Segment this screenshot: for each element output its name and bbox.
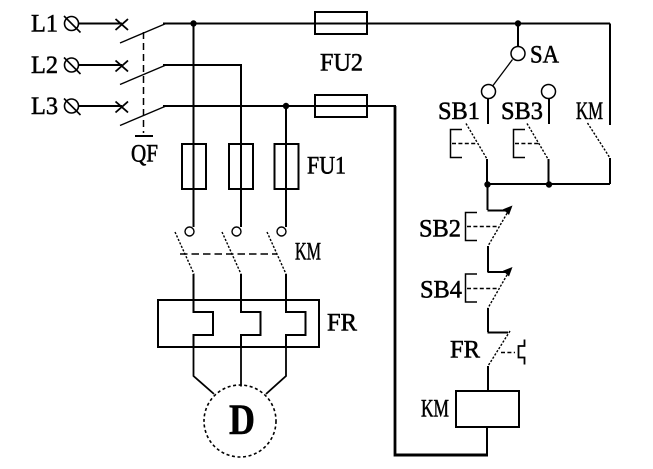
KM main contact fixed terminal (pole 1) bbox=[185, 227, 194, 236]
svg-text:SA: SA bbox=[530, 42, 559, 69]
QF fixed contact x (pole 3) bbox=[116, 102, 129, 113]
wire pole2 blade to FR bbox=[240, 274, 242, 300]
FR contact dashed link bbox=[501, 352, 515, 354]
svg-text:SB2: SB2 bbox=[419, 216, 461, 243]
fuse FU1 (phase 1) bbox=[182, 144, 206, 189]
selector SA right position circle bbox=[542, 85, 556, 99]
svg-text:SB3: SB3 bbox=[501, 98, 543, 125]
terminal L3 bbox=[64, 99, 81, 116]
KM main contact blade (pole 3) bbox=[267, 232, 286, 274]
motor D circle bbox=[204, 385, 276, 457]
wire FR to motor (phase 3) bbox=[266, 347, 286, 394]
FR heater element (phase 1) bbox=[194, 300, 214, 347]
svg-text:QF: QF bbox=[131, 141, 158, 168]
wire KM coil to bottom bbox=[486, 427, 488, 455]
svg-text:KM: KM bbox=[295, 239, 321, 266]
pushbutton SB4 arrow tip bbox=[503, 267, 513, 277]
KM auxiliary contact blade bbox=[588, 123, 611, 158]
wire SB2 to SB4 bbox=[487, 246, 489, 272]
pushbutton SB2 actuator dashed link bbox=[467, 226, 497, 228]
QF linkage dashed line bbox=[143, 32, 145, 133]
node junction L1/control bbox=[190, 20, 196, 26]
QF blade (pole 3) bbox=[120, 106, 166, 126]
wire FR contact to KM coil bbox=[487, 366, 489, 391]
FR heater element (phase 2) bbox=[241, 300, 261, 347]
QF blade (pole 1) bbox=[120, 24, 166, 44]
KM coil bbox=[456, 391, 519, 427]
svg-text:SB1: SB1 bbox=[438, 98, 480, 125]
KM main contact fixed terminal (pole 3) bbox=[277, 227, 286, 236]
wire parallel bus bbox=[487, 183, 610, 185]
node junction bus left bbox=[484, 181, 490, 187]
FR contact blade bbox=[488, 331, 510, 366]
wire L1 terminal to QF bbox=[79, 23, 122, 25]
QF fixed contact x (pole 2) bbox=[116, 61, 129, 72]
wire phase 2 vertical bbox=[240, 65, 242, 227]
wire control left vertical bbox=[394, 106, 397, 457]
node junction SA bbox=[515, 20, 521, 26]
svg-text:FU1: FU1 bbox=[307, 153, 346, 180]
wire phase 1 vertical bbox=[193, 24, 195, 228]
wire L1 phase bus bbox=[163, 23, 610, 25]
pushbutton SB1 actuator bracket bbox=[451, 130, 463, 158]
wire bottom return bbox=[394, 454, 488, 457]
fuse FU2 (upper, in L1 control wire) bbox=[315, 12, 367, 34]
wire SA right circle to SB3 bbox=[548, 99, 550, 125]
wire SB1 to bus bbox=[486, 159, 488, 184]
pushbutton SB2 fixed bar bbox=[488, 210, 507, 212]
pushbutton SB3 actuator dashed link bbox=[515, 143, 540, 145]
pushbutton SB4 blade bbox=[488, 272, 509, 309]
wire SA stem bbox=[517, 24, 519, 47]
FR thermal relay box bbox=[158, 300, 319, 347]
wire L2 horizontal bbox=[163, 64, 242, 66]
fuse FU1 (phase 3) bbox=[275, 144, 299, 189]
wire pole1 blade to FR bbox=[193, 274, 195, 300]
pushbutton SB2 blade bbox=[488, 210, 509, 246]
svg-text:D: D bbox=[229, 397, 255, 444]
wire L3 terminal to QF bbox=[79, 105, 122, 107]
wire SB3 to bus bbox=[548, 159, 550, 184]
wire bus to SB2 bbox=[487, 184, 489, 210]
pushbutton SB3 actuator bracket bbox=[514, 130, 526, 158]
svg-text:KM: KM bbox=[421, 396, 449, 423]
pushbutton SB2 actuator bracket bbox=[466, 213, 478, 241]
wire FR to motor (phase 2) bbox=[240, 347, 242, 387]
KM main contact fixed terminal (pole 2) bbox=[232, 227, 241, 236]
svg-text:FR: FR bbox=[450, 337, 480, 364]
svg-text:L1: L1 bbox=[31, 11, 58, 38]
wire SB4 to FR contact bbox=[487, 308, 489, 332]
KM main contact blade (pole 2) bbox=[222, 232, 241, 274]
terminal L1 bbox=[64, 16, 81, 33]
pushbutton SB1 actuator dashed link bbox=[452, 143, 477, 145]
pushbutton SB4 fixed bar bbox=[488, 271, 507, 273]
pushbutton SB4 actuator dashed link bbox=[467, 288, 497, 290]
node junction bus middle bbox=[546, 181, 552, 187]
svg-text:L3: L3 bbox=[31, 93, 58, 120]
QF fixed contact x (pole 1) bbox=[116, 19, 129, 30]
selector switch SA blade bbox=[493, 60, 513, 86]
FR contact reset hook bbox=[519, 340, 525, 365]
node junction L3/control bbox=[283, 103, 289, 109]
wire L2 terminal to QF bbox=[79, 64, 122, 66]
selector SA left position circle bbox=[482, 85, 496, 99]
pushbutton SB3 blade bbox=[527, 124, 548, 160]
KM main contact blade (pole 1) bbox=[175, 232, 194, 274]
wire FR to motor (phase 1) bbox=[194, 347, 215, 394]
fuse FU2 (lower, in L3 control wire) bbox=[315, 95, 367, 117]
QF blade (pole 2) bbox=[120, 65, 166, 85]
terminal L2 bbox=[64, 58, 81, 75]
wire L3 horizontal bbox=[163, 105, 396, 107]
QF linkage end tick bbox=[135, 135, 153, 137]
pushbutton SB1 blade bbox=[466, 124, 487, 160]
svg-text:FR: FR bbox=[327, 310, 357, 337]
FR heater element (phase 3) bbox=[286, 300, 306, 347]
svg-text:SB4: SB4 bbox=[420, 277, 462, 304]
wire phase 3 vertical bbox=[285, 106, 287, 227]
wire pole3 blade to FR bbox=[285, 274, 287, 300]
svg-text:L2: L2 bbox=[31, 52, 58, 79]
KM main mechanical linkage dashed bbox=[180, 253, 277, 255]
selector switch SA pivot circle bbox=[511, 47, 525, 61]
fuse FU1 (phase 2) bbox=[229, 144, 253, 189]
svg-text:FU2: FU2 bbox=[320, 50, 363, 77]
pushbutton SB4 actuator bracket bbox=[466, 274, 478, 302]
wire KM aux to bus bbox=[609, 158, 611, 184]
wire SA left circle to SB1 bbox=[487, 99, 489, 125]
wire control right branch vertical bbox=[609, 24, 611, 126]
svg-text:KM: KM bbox=[576, 98, 603, 125]
FR contact fixed bar bbox=[488, 332, 509, 334]
pushbutton SB2 arrow tip bbox=[503, 206, 513, 216]
